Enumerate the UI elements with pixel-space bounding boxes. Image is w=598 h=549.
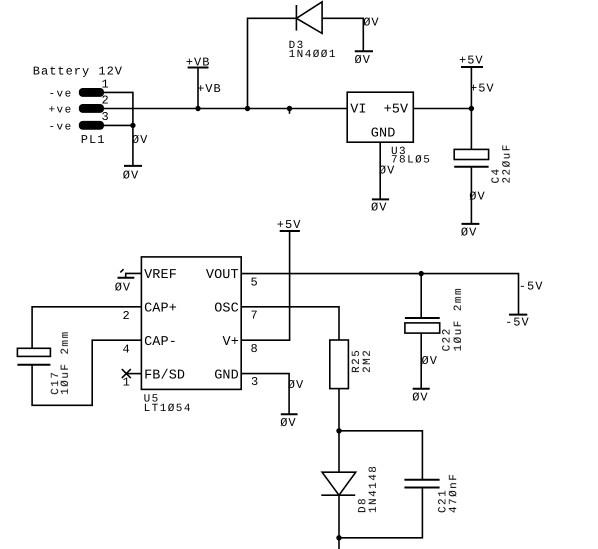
svg-text:5: 5 bbox=[251, 275, 259, 289]
wire C4 to ground bbox=[470, 167, 472, 224]
svg-text:1N4ØØ1: 1N4ØØ1 bbox=[289, 49, 337, 61]
wire CAP+ to C17 top bbox=[32, 307, 141, 349]
ground bar 0V at D3 anode bbox=[355, 50, 373, 52]
capacitor C4 positive plate bbox=[454, 149, 488, 159]
svg-text:ØV: ØV bbox=[379, 164, 395, 178]
connector PL1 pin 1 pad bbox=[79, 88, 104, 97]
wire C17 bottom to CAP- bbox=[32, 340, 141, 405]
capacitor C17 positive plate bbox=[17, 348, 50, 356]
ground bar 0V below C4 bbox=[462, 223, 480, 225]
diode D3 cathode bar bbox=[295, 5, 297, 31]
svg-text:ØV: ØV bbox=[132, 133, 148, 147]
capacitor C17 negative plate bbox=[17, 364, 50, 366]
diode D3 triangle bbox=[296, 2, 322, 34]
svg-text:2M2: 2M2 bbox=[362, 349, 374, 373]
junction +5V node bbox=[469, 106, 474, 111]
ground bar 0V below C22 bbox=[413, 388, 430, 390]
wire OSC to R25 top bbox=[241, 307, 339, 340]
wire node to C21 top bbox=[339, 431, 422, 480]
svg-text:ØV: ØV bbox=[280, 416, 296, 430]
capacitor C22 positive plate bbox=[405, 323, 440, 333]
connector PL1 pin 3 pad bbox=[79, 121, 104, 130]
svg-text:-5V: -5V bbox=[505, 316, 530, 330]
wire U5 GND to ground bbox=[241, 374, 289, 415]
svg-text:+VB: +VB bbox=[186, 55, 211, 69]
svg-text:ØV: ØV bbox=[123, 168, 139, 182]
wire PL1 pin3 bbox=[104, 124, 133, 126]
wire stub below junction bbox=[289, 109, 291, 114]
power symbol +VB bbox=[188, 67, 209, 69]
svg-text:-ve: -ve bbox=[49, 121, 73, 133]
svg-text:7: 7 bbox=[251, 308, 259, 322]
svg-text:PL1: PL1 bbox=[81, 133, 106, 147]
svg-text:ØV: ØV bbox=[412, 391, 428, 405]
regulator U3 body bbox=[347, 92, 413, 142]
capacitor C4 negative plate bbox=[454, 166, 488, 168]
svg-text:-5V: -5V bbox=[519, 280, 544, 294]
wire +VB to bus bbox=[197, 68, 199, 109]
IC U5 body bbox=[141, 257, 241, 390]
capacitor C21 bottom plate bbox=[404, 487, 439, 489]
svg-text:OSC: OSC bbox=[214, 302, 239, 317]
power bar +5V bbox=[461, 66, 483, 68]
svg-text:78LØ5: 78LØ5 bbox=[391, 154, 431, 166]
svg-text:V+: V+ bbox=[223, 335, 239, 350]
svg-text:ØV: ØV bbox=[355, 53, 371, 67]
wire PL1 pin1 to ground rail bbox=[104, 92, 133, 165]
svg-text:+ve: +ve bbox=[49, 105, 73, 117]
wire C21 bottom to node bbox=[339, 488, 422, 538]
svg-text:1N4148: 1N4148 bbox=[368, 465, 380, 513]
svg-text:22ØuF: 22ØuF bbox=[502, 143, 514, 183]
wire R25 bottom to node bbox=[338, 389, 340, 431]
svg-text:2: 2 bbox=[123, 309, 131, 323]
junction +VB on bus bbox=[195, 106, 200, 111]
power bar -5V bbox=[509, 314, 527, 316]
junction C22 tap on VOUT net bbox=[419, 271, 424, 276]
svg-text:1ØuF 2mm: 1ØuF 2mm bbox=[453, 287, 465, 351]
wire VOUT net to -5V corner bbox=[241, 274, 518, 315]
no-connect X at FB/SD pin 1 bbox=[122, 369, 131, 378]
svg-text:CAP-: CAP- bbox=[144, 335, 177, 350]
svg-text:ØV: ØV bbox=[371, 201, 387, 215]
svg-text:Battery 12V: Battery 12V bbox=[33, 65, 123, 79]
diode D8 triangle bbox=[322, 472, 356, 495]
svg-text:3: 3 bbox=[251, 375, 259, 389]
wire D8 cathode down bbox=[338, 495, 340, 538]
svg-text:ØV: ØV bbox=[469, 189, 485, 203]
wire U3 output to +5V node bbox=[413, 108, 471, 110]
wire bottom node to edge bbox=[338, 538, 340, 549]
svg-text:GND: GND bbox=[214, 368, 239, 383]
wire +5V node down to C4 bbox=[470, 109, 472, 150]
resistor R25 body bbox=[330, 340, 349, 389]
wire +5V node up to bar bbox=[470, 67, 472, 109]
svg-text:-ve: -ve bbox=[49, 88, 73, 100]
junction PL1 pin3 bbox=[130, 123, 135, 128]
svg-text:+5V: +5V bbox=[470, 82, 495, 96]
svg-text:3: 3 bbox=[102, 110, 110, 124]
junction D8 C21 top node bbox=[336, 428, 341, 433]
connector PL1 pin 2 pad bbox=[79, 104, 104, 113]
svg-text:47ØnF: 47ØnF bbox=[448, 473, 460, 513]
wire main +VB bus from PL1 pin2 to U3 VI bbox=[104, 108, 347, 110]
wire VREF to 0V symbol bbox=[126, 273, 142, 277]
svg-text:CAP+: CAP+ bbox=[144, 302, 177, 317]
svg-text:LT1Ø54: LT1Ø54 bbox=[144, 403, 192, 415]
svg-text:VI: VI bbox=[350, 103, 366, 118]
svg-text:1: 1 bbox=[102, 77, 110, 91]
ground bar 0V at VREF bbox=[118, 277, 135, 279]
junction stub node on bus bbox=[287, 106, 292, 111]
svg-text:VREF: VREF bbox=[144, 268, 177, 283]
svg-text:ØV: ØV bbox=[363, 16, 379, 30]
wire C22 tap down to C22 bbox=[420, 274, 422, 318]
svg-text:C22: C22 bbox=[442, 327, 454, 351]
svg-text:2: 2 bbox=[102, 93, 110, 107]
ground bar 0V below U3 bbox=[372, 198, 389, 200]
svg-text:8: 8 bbox=[251, 342, 259, 356]
svg-text:+VB: +VB bbox=[197, 82, 222, 96]
svg-text:FB/SD: FB/SD bbox=[144, 368, 185, 383]
svg-text:ØV: ØV bbox=[115, 281, 131, 295]
wire FB/SD no-connect stub bbox=[126, 373, 141, 375]
svg-text:ØV: ØV bbox=[422, 354, 438, 368]
junction D8 C21 bottom node bbox=[336, 535, 341, 540]
capacitor C21 top plate bbox=[404, 479, 439, 481]
svg-text:4: 4 bbox=[123, 342, 131, 356]
junction D3 branch on bus bbox=[245, 106, 250, 111]
wire bus up to D3 cathode bbox=[248, 18, 297, 108]
svg-text:+5V: +5V bbox=[384, 103, 409, 118]
wire C22 bottom to ground bbox=[420, 333, 422, 389]
diode D8 cathode bar bbox=[321, 494, 355, 496]
wire D3 anode to 0V bbox=[322, 18, 363, 51]
tick mark at VREF symbol bbox=[120, 269, 123, 272]
ground bar 0V at U5 GND bbox=[281, 413, 298, 415]
svg-text:ØV: ØV bbox=[288, 378, 304, 392]
capacitor C22 negative plate bbox=[405, 317, 440, 319]
svg-text:ØV: ØV bbox=[461, 226, 477, 240]
svg-text:+5V: +5V bbox=[459, 53, 484, 67]
svg-text:GND: GND bbox=[371, 127, 396, 142]
ground bar 0V below PL1 bbox=[124, 165, 142, 167]
wire +5V bar down to V+ pin bbox=[241, 231, 289, 340]
svg-text:1ØuF 2mm: 1ØuF 2mm bbox=[60, 330, 72, 394]
power bar +5V above U5 bbox=[280, 230, 300, 232]
svg-text:+5V: +5V bbox=[277, 218, 302, 232]
wire U3 GND down bbox=[379, 142, 381, 199]
wire D8 anode bbox=[338, 431, 340, 472]
svg-text:VOUT: VOUT bbox=[206, 268, 239, 283]
